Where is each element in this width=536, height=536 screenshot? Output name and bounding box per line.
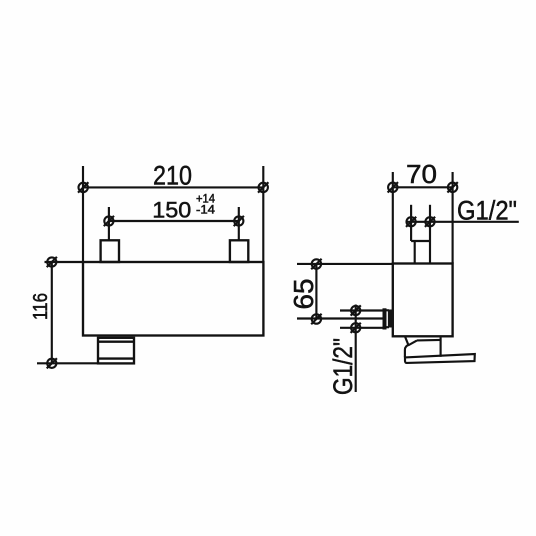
dimension terminator circle left 150 [104,216,114,226]
extension line right (210) [262,166,264,262]
left inlet connector [101,240,119,262]
valve stem bottom link [386,326,389,328]
tick bottom 116 [37,362,98,364]
dimension terminator circle top 116 [47,257,57,267]
centerline left connector [108,207,110,240]
right inlet connector [230,240,248,262]
valve centerline vertical [355,305,357,393]
svg-text:-14: -14 [196,205,216,217]
svg-text:70: 70 [406,159,437,189]
inlet pipe left (side) [410,205,412,241]
valve stem flange bar [383,308,387,329]
valve circle upper [351,305,361,315]
pipe circle left [406,217,416,227]
dimension terminator circle top 65 [311,259,321,269]
valve upper leader line [340,309,383,311]
valve stem thread block [388,310,393,328]
outlet neck chamfer [405,340,417,349]
outlet neck top [417,339,441,342]
valve lower leader line [340,327,383,329]
svg-text:116: 116 [29,293,52,320]
valve circle lower [351,323,361,333]
svg-text:150: 150 [152,198,191,223]
dimension terminator circle bottom 65 [311,314,321,324]
dimension line 210 [83,186,263,188]
outlet neck left slant [405,337,408,345]
dimension terminator circle right 150 [234,216,244,226]
leader line G1/2 top [406,221,519,223]
dimension line 70 [393,186,453,188]
dimension terminator circle right 210 [258,182,268,192]
outlet neck left edge [404,350,406,358]
extension line left (210) [82,166,84,262]
dimension terminator circle bottom 116 [47,358,57,368]
extension line right (70) [452,172,454,264]
dimension terminator circle left 70 [388,182,398,192]
svg-text:65: 65 [288,279,319,310]
centerline right connector [238,207,240,240]
tick bottom 65 [297,317,383,319]
dimension line 65 vertical [315,264,317,319]
svg-text:G1/2": G1/2" [457,196,517,226]
svg-text:210: 210 [153,160,192,190]
svg-text:G1/2": G1/2" [328,338,358,395]
pipe circle right [425,217,435,227]
valve stem top link [386,309,389,311]
tick top 65 [297,263,393,265]
outlet neck right edge [440,338,442,357]
body side view [393,264,453,337]
spout outlet front [98,338,134,364]
inlet pipe right (side) [429,205,431,264]
dimension terminator circle left 210 [78,182,88,192]
dimension terminator circle right 70 [447,182,457,192]
outlet flange [405,354,475,363]
svg-text:+14: +14 [196,193,216,205]
body front view [83,262,263,336]
tick top 116 [45,261,84,263]
extension line left (70) [392,172,394,264]
dimension line 150 [109,220,239,222]
pipe fitting inner line [414,241,416,264]
dimension line 116 vertical [51,262,53,363]
pipe fitting bar [411,240,430,242]
